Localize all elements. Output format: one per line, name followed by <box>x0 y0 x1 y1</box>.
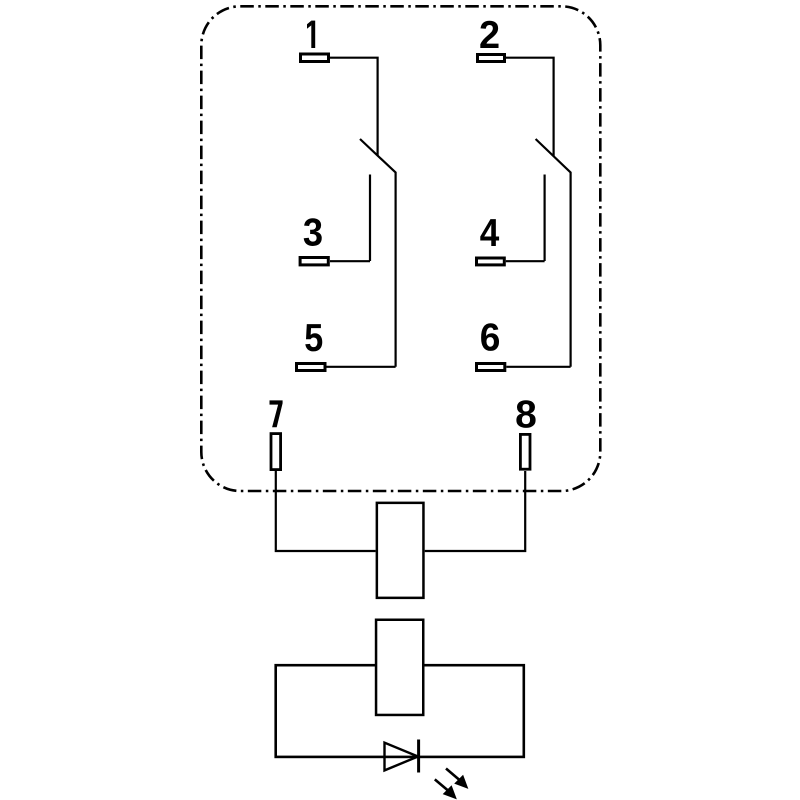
coil body rectangle (front view) <box>376 620 423 715</box>
svg-text:4: 4 <box>480 212 500 255</box>
mounting outline rectangle <box>276 665 524 757</box>
wire pin 5 <box>327 366 396 368</box>
wire from pin 8 to coil <box>425 471 526 551</box>
wire pin 6 <box>506 366 570 368</box>
svg-text:3: 3 <box>303 212 323 255</box>
relay housing outline (dash-dot rounded rectangle) <box>201 6 600 491</box>
svg-text:2: 2 <box>479 14 500 57</box>
pin 4 terminal <box>477 258 505 265</box>
pin 6 terminal <box>477 364 505 371</box>
pin 1 terminal <box>301 54 329 62</box>
LED light arrow 1 head <box>455 776 467 788</box>
pin 8 terminal <box>520 434 530 469</box>
wire pin 3 <box>330 260 370 262</box>
pin 7 terminal <box>271 434 281 470</box>
NO contact stub pole 2 <box>543 175 545 262</box>
pin 3 terminal <box>300 258 328 265</box>
LED light arrow 2 head <box>444 786 456 798</box>
LED light arrow 1 shaft <box>446 769 460 781</box>
switch blade pole 2 <box>536 139 571 367</box>
svg-text:6: 6 <box>480 316 501 359</box>
coil K1 <box>377 503 424 598</box>
LED diode D1 <box>385 743 419 771</box>
svg-text:8: 8 <box>515 394 537 437</box>
pin label 7 <box>270 400 283 427</box>
wire from pin 2 to contact <box>506 58 554 156</box>
pin label 1 <box>307 21 315 48</box>
pin 5 terminal <box>297 364 326 371</box>
LED cathode bar <box>417 740 420 773</box>
NO contact stub pole 1 <box>369 175 371 262</box>
wire pin 4 <box>506 260 545 262</box>
wire from pin 7 to coil <box>276 471 376 551</box>
svg-text:5: 5 <box>304 317 323 360</box>
wire from pin 1 to contact <box>330 58 378 156</box>
switch blade pole 1 <box>360 139 396 367</box>
LED light arrow 2 shaft <box>435 779 448 790</box>
pin 2 terminal <box>478 55 505 62</box>
